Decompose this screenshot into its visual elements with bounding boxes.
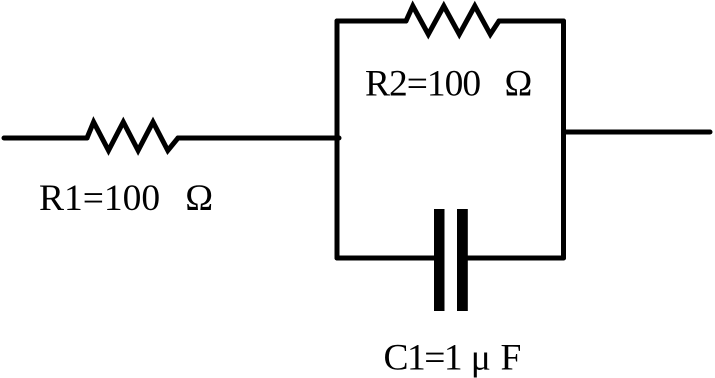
svg-text:Ω: Ω	[505, 64, 533, 105]
svg-text:μ: μ	[471, 338, 491, 378]
wire	[337, 19, 406, 24]
wire	[335, 21, 340, 258]
wire	[178, 136, 339, 141]
svg-text:F: F	[501, 338, 522, 378]
label C1 value	[384, 338, 522, 378]
resistor R2	[406, 6, 499, 34]
svg-text:R2=100: R2=100	[365, 64, 480, 105]
wire	[561, 21, 566, 258]
wire	[4, 136, 87, 141]
wire	[468, 256, 564, 261]
label R2 value	[365, 64, 532, 105]
resistor R1	[87, 122, 178, 151]
svg-text:C1=1: C1=1	[384, 338, 462, 378]
wire	[564, 130, 711, 135]
label R1 value	[39, 178, 213, 219]
wire	[499, 19, 564, 24]
svg-text:R1=100: R1=100	[39, 178, 160, 219]
capacitor C1	[434, 209, 468, 311]
svg-text:Ω: Ω	[185, 178, 213, 219]
wire	[337, 256, 434, 261]
